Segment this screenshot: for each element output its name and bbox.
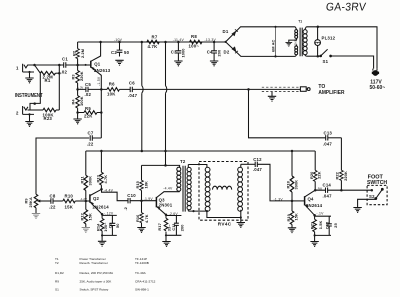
ground R12 xyxy=(82,228,90,233)
ground R19 xyxy=(288,228,296,233)
svg-text:-.1V: -.1V xyxy=(316,212,324,216)
svg-text:390K: 390K xyxy=(88,176,93,186)
svg-text:C14: C14 xyxy=(323,183,332,188)
resistor R20 xyxy=(313,151,317,190)
svg-text:S1: S1 xyxy=(323,59,329,64)
svg-text:C3: C3 xyxy=(171,50,177,55)
svg-text:-10V: -10V xyxy=(114,38,123,42)
svg-text:CRA-411-2712: CRA-411-2712 xyxy=(135,280,156,284)
svg-text:R11: R11 xyxy=(80,176,85,184)
transformer T2 xyxy=(166,165,207,212)
wire: T1 primary bottom to switch xyxy=(306,55,320,57)
svg-text:R17: R17 xyxy=(157,223,162,230)
ground S2 xyxy=(353,208,361,213)
ground R17 xyxy=(162,235,170,246)
RV4C spring coupling xyxy=(213,186,232,189)
svg-text:15K: 15K xyxy=(88,213,93,221)
svg-text:C9: C9 xyxy=(107,222,112,228)
svg-text:R8: R8 xyxy=(191,34,197,39)
svg-text:PL312: PL312 xyxy=(322,36,336,41)
svg-text:25K, Audio taper ± 30K: 25K, Audio taper ± 30K xyxy=(80,280,113,284)
capacitor C3 xyxy=(176,42,182,61)
svg-text:R6: R6 xyxy=(109,81,115,86)
svg-text:D2: D2 xyxy=(224,50,230,55)
svg-text:Q2: Q2 xyxy=(93,196,100,201)
wire: Q1 emitter column xyxy=(100,89,102,138)
wire: R1 right to input line xyxy=(58,65,60,110)
svg-text:-.12V: -.12V xyxy=(104,212,114,216)
svg-text:C13: C13 xyxy=(324,131,333,136)
svg-text:TC-49A: TC-49A xyxy=(135,271,147,275)
svg-text:.02: .02 xyxy=(85,92,92,97)
svg-text:Switch, SPST Rotary: Switch, SPST Rotary xyxy=(80,288,109,292)
svg-text:200: 200 xyxy=(216,50,221,57)
jack1 switch lever xyxy=(35,65,41,73)
resistor R13 xyxy=(100,151,104,189)
wire: main output line xyxy=(101,88,248,90)
resistor R7 xyxy=(147,40,159,44)
svg-text:R3: R3 xyxy=(70,74,75,80)
svg-text:C2: C2 xyxy=(111,50,117,55)
capacitor C10 xyxy=(128,198,156,203)
wire: Q2 collector to C10 xyxy=(102,189,129,200)
ground R21 xyxy=(310,235,318,246)
switch S1 xyxy=(320,49,374,68)
svg-text:C11: C11 xyxy=(171,223,176,231)
svg-text:TF-1200B: TF-1200B xyxy=(135,261,149,265)
capacitor C9 xyxy=(102,215,117,235)
svg-text:.02: .02 xyxy=(61,70,68,75)
svg-text:.22: .22 xyxy=(49,205,56,210)
wire: RV4C output to C12 xyxy=(241,163,255,165)
svg-text:C10: C10 xyxy=(127,193,136,198)
sub supply rail xyxy=(86,150,315,152)
svg-text:2N2614: 2N2614 xyxy=(93,204,110,209)
ground C2 xyxy=(115,60,123,65)
resistor R4 xyxy=(76,89,80,119)
svg-text:50: 50 xyxy=(115,223,120,228)
wire: R15 top to T2 node xyxy=(142,164,166,166)
capacitor C13 xyxy=(326,135,342,140)
switch S2 xyxy=(358,188,384,207)
emitter RC of Q4: resistor R21 xyxy=(313,215,317,235)
svg-text:R13: R13 xyxy=(95,174,100,182)
RV4C bottom bus xyxy=(207,211,241,222)
svg-text:R7: R7 xyxy=(152,34,158,39)
svg-text:-2.6V: -2.6V xyxy=(169,212,179,216)
node: secondary AC measurement line xyxy=(275,27,277,57)
svg-text:R1: R1 xyxy=(45,78,51,83)
wire: T1 primary top to plug xyxy=(306,27,377,69)
diode D1 xyxy=(226,27,296,42)
svg-text:6M AC: 6M AC xyxy=(270,39,275,52)
emitter RC of Q2: resistor R14 xyxy=(100,214,104,235)
capacitor C8 xyxy=(51,198,63,203)
plug to amplifier xyxy=(300,87,310,92)
svg-text:T2: T2 xyxy=(180,159,186,164)
RV4C input coil xyxy=(205,167,210,172)
resistor R12 xyxy=(84,201,88,228)
svg-text:GA-3RV: GA-3RV xyxy=(325,1,367,13)
svg-text:Q1: Q1 xyxy=(94,61,101,66)
jack2 switch bracket to R1 xyxy=(30,73,40,110)
svg-text:100~: 100~ xyxy=(189,44,200,49)
svg-text:.047: .047 xyxy=(253,167,263,172)
wire: vertical feed x165.5 xyxy=(166,42,167,165)
svg-text:R18: R18 xyxy=(286,180,291,188)
svg-text:22K: 22K xyxy=(84,114,93,119)
svg-text:R20: R20 xyxy=(309,172,314,179)
svg-text:15K: 15K xyxy=(294,213,299,221)
svg-text:Reverb. Transformer: Reverb. Transformer xyxy=(80,261,108,265)
svg-text:.047: .047 xyxy=(323,194,333,199)
svg-text:SW-898-1: SW-898-1 xyxy=(135,288,149,292)
svg-text:1000: 1000 xyxy=(181,48,186,57)
svg-text:2N301: 2N301 xyxy=(159,203,173,208)
junction dots on rail xyxy=(99,26,319,58)
svg-text:D1: D1 xyxy=(223,29,229,34)
svg-text:.22: .22 xyxy=(87,142,94,147)
resistor R5 xyxy=(78,111,102,115)
svg-text:R10: R10 xyxy=(65,193,74,198)
lamp PL312 xyxy=(315,27,321,56)
svg-text:2N2613: 2N2613 xyxy=(94,68,111,73)
capacitor C5 xyxy=(78,87,102,92)
svg-text:RV4C: RV4C xyxy=(218,221,232,226)
svg-text:R12: R12 xyxy=(80,212,85,220)
svg-text:C1: C1 xyxy=(62,56,68,61)
capacitor C11 xyxy=(166,216,181,236)
capacitor C7 xyxy=(90,135,92,140)
resistor R3 xyxy=(76,65,80,89)
svg-text:R9: R9 xyxy=(55,280,59,284)
svg-text:R23: R23 xyxy=(44,116,53,121)
junction dots input area xyxy=(28,64,249,116)
reverb unit RV4C dashed box xyxy=(199,162,248,221)
ground C3 xyxy=(174,61,182,66)
plug 117V xyxy=(372,69,379,76)
transistor Q1 xyxy=(91,42,102,89)
resistor R2 xyxy=(76,42,80,65)
ground R14 xyxy=(98,235,106,246)
svg-text:4.7K: 4.7K xyxy=(148,44,159,49)
svg-text:15K: 15K xyxy=(65,205,74,210)
svg-text:C12: C12 xyxy=(253,157,262,162)
svg-text:335-06: 335-06 xyxy=(295,38,298,46)
resistor R11 xyxy=(84,151,88,201)
junction dots lower section xyxy=(85,150,374,237)
RV4C output coil xyxy=(240,164,242,211)
svg-text:R16: R16 xyxy=(135,214,140,222)
capacitor C12 xyxy=(255,162,292,201)
svg-text:-.3V: -.3V xyxy=(78,86,83,90)
svg-text:SWITCH: SWITCH xyxy=(367,180,387,186)
svg-text:INSTRUMENT: INSTRUMENT xyxy=(15,92,43,99)
svg-text:R21: R21 xyxy=(309,221,314,229)
jack 2 xyxy=(23,106,43,122)
svg-text:S2: S2 xyxy=(369,194,375,199)
svg-text:2N2614: 2N2614 xyxy=(306,203,323,208)
wire: negative supply rail xyxy=(78,41,226,43)
svg-text:R19: R19 xyxy=(286,213,291,221)
wire: input line to Q1 base xyxy=(78,64,91,66)
resistor R23 xyxy=(43,108,59,112)
svg-text:R14: R14 xyxy=(95,223,100,231)
svg-text:-4.4V: -4.4V xyxy=(104,188,114,192)
svg-text:S1: S1 xyxy=(55,288,59,292)
svg-text:.047: .047 xyxy=(323,142,333,147)
ground C4 xyxy=(210,61,218,66)
svg-text:T2: T2 xyxy=(55,261,59,265)
svg-text:AMPLIFIER: AMPLIFIER xyxy=(318,90,344,96)
emitter RC of Q3: resistor R17 xyxy=(164,215,168,236)
resistor R18 xyxy=(290,151,294,201)
svg-text:C5: C5 xyxy=(85,82,91,87)
svg-text:10K: 10K xyxy=(107,91,116,96)
ground T1 center tap xyxy=(285,42,292,46)
svg-text:Diodes, 200 PIV,150 MA: Diodes, 200 PIV,150 MA xyxy=(80,271,115,275)
capacitor C6 xyxy=(130,87,132,92)
transistor Q3 xyxy=(156,192,179,215)
transistor Q4 xyxy=(292,190,315,215)
svg-text:C7: C7 xyxy=(88,130,94,135)
svg-text:-4.4V: -4.4V xyxy=(163,186,173,190)
capacitor C14 xyxy=(315,188,341,193)
svg-text:50: 50 xyxy=(124,50,130,55)
diode D2 xyxy=(226,42,296,57)
wire: C14 junction to foot switch xyxy=(341,189,371,191)
wire: vertical feed x142 xyxy=(142,42,143,151)
svg-text:-1.9V: -1.9V xyxy=(144,197,154,201)
svg-text:220K: 220K xyxy=(79,71,84,81)
svg-text:25: 25 xyxy=(333,222,338,227)
svg-text:R5: R5 xyxy=(85,106,91,111)
svg-text:50-60~: 50-60~ xyxy=(370,85,386,91)
svg-text:R2: R2 xyxy=(71,50,76,56)
svg-text:C6: C6 xyxy=(129,81,135,86)
resistor R8 xyxy=(190,40,202,44)
resistor R22 xyxy=(340,138,344,190)
svg-text:R4: R4 xyxy=(70,99,75,105)
svg-text:R22: R22 xyxy=(335,171,340,179)
svg-text:4.7K: 4.7K xyxy=(103,175,108,184)
svg-text:18K: 18K xyxy=(144,181,149,189)
svg-text:1: 1 xyxy=(16,66,19,71)
resistor R19 xyxy=(290,201,294,228)
resistor R6 xyxy=(107,88,119,92)
ground shield xyxy=(268,96,276,101)
svg-text:C15: C15 xyxy=(325,221,330,229)
svg-text:1.5K: 1.5K xyxy=(318,220,323,229)
svg-text:C8: C8 xyxy=(50,193,56,198)
resistor R10 xyxy=(63,199,86,203)
svg-text:T1: T1 xyxy=(298,20,302,24)
LEGEND xyxy=(55,257,156,292)
svg-text:2.2M: 2.2M xyxy=(80,49,85,58)
svg-text:.047: .047 xyxy=(128,93,138,98)
capacitor C15 xyxy=(315,216,332,235)
ground jack2 xyxy=(25,122,33,127)
potentiometer R9 xyxy=(34,194,51,213)
wire: C7 feedback line xyxy=(36,138,101,194)
svg-text:22K: 22K xyxy=(317,171,322,179)
resistor R15 xyxy=(140,165,144,200)
svg-text:2: 2 xyxy=(16,111,19,116)
transistor Q2 xyxy=(86,189,102,214)
svg-text:-1.5V: -1.5V xyxy=(97,76,101,86)
jack 1 xyxy=(23,64,60,78)
svg-text:D1,D2: D1,D2 xyxy=(55,271,64,275)
svg-text:-1.3V: -1.3V xyxy=(274,198,284,202)
svg-text:25KA: 25KA xyxy=(28,197,33,207)
capacitor C4 xyxy=(211,42,217,61)
capacitor C2 xyxy=(117,42,123,57)
svg-text:200: 200 xyxy=(180,225,185,232)
transformer T1 xyxy=(289,27,307,57)
ground R16 xyxy=(137,228,145,233)
ground jack1 xyxy=(25,78,33,83)
resistor R1 xyxy=(40,71,59,75)
shielded cable to amplifier xyxy=(249,87,301,96)
ground R4 xyxy=(73,119,81,124)
ground RV4C xyxy=(237,223,245,228)
resistor R16 xyxy=(140,201,144,228)
wire: output drop to C13 line xyxy=(249,89,326,137)
svg-text:220K: 220K xyxy=(343,171,348,181)
svg-text:R15: R15 xyxy=(135,180,140,188)
svg-text:C4: C4 xyxy=(207,50,213,55)
svg-text:390K: 390K xyxy=(294,180,299,190)
capacitor C1 xyxy=(59,62,77,67)
svg-text:4.7K: 4.7K xyxy=(144,214,149,223)
svg-text:Q4: Q4 xyxy=(308,197,315,202)
ground R9 xyxy=(32,214,40,219)
svg-text:100K: 100K xyxy=(79,96,84,106)
foot switch box S2 xyxy=(367,185,387,204)
svg-text:TO: TO xyxy=(318,84,325,90)
